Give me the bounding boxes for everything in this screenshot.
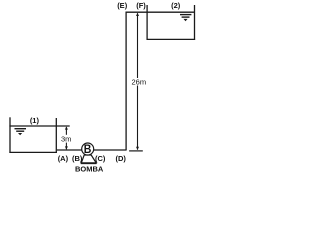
wire: riser pipe D-E bbox=[125, 12, 127, 150]
tank 2 left wall bbox=[146, 5, 148, 40]
arrowhead 3m up bbox=[65, 126, 68, 129]
svg-text:(E): (E) bbox=[117, 1, 128, 10]
svg-text:3m: 3m bbox=[61, 135, 71, 144]
dimension line 26m (vertical, broken for text) bbox=[137, 13, 139, 150]
dimension line 3m (vertical, broken for text) bbox=[65, 127, 67, 149]
tank 1 left wall bbox=[9, 117, 11, 153]
svg-text:BOMBA: BOMBA bbox=[75, 165, 104, 174]
arrowhead 26m up bbox=[136, 13, 139, 16]
svg-text:B: B bbox=[84, 142, 92, 156]
tank 1 bottom bbox=[9, 151, 57, 153]
pump base line bbox=[81, 163, 97, 165]
tank 1 water surface line (datum for 3m) bbox=[9, 125, 69, 127]
arrowhead 26m down bbox=[136, 147, 139, 150]
svg-text:(C): (C) bbox=[95, 154, 106, 163]
dimension extension line at pump level bbox=[129, 150, 143, 152]
tank 1 right wall bbox=[55, 118, 57, 153]
arrowhead 3m down bbox=[65, 146, 68, 149]
svg-text:(D): (D) bbox=[115, 154, 126, 163]
pump circle B (BOMBA) bbox=[82, 143, 94, 155]
svg-text:26m: 26m bbox=[132, 78, 147, 87]
svg-text:(A): (A) bbox=[58, 154, 69, 163]
pump base trapezoid bbox=[81, 155, 96, 163]
wire: suction/discharge pipe A-B-C-D bbox=[57, 149, 127, 151]
tank 2 right wall bbox=[194, 5, 196, 40]
wire: top pipe E-F / tank 2 water surface bbox=[126, 11, 195, 13]
water level symbol tank 1 bbox=[15, 128, 27, 135]
svg-text:(1): (1) bbox=[30, 116, 40, 125]
tank 2 bottom bbox=[147, 38, 196, 40]
svg-text:(2): (2) bbox=[171, 1, 181, 10]
svg-text:(F): (F) bbox=[136, 1, 146, 10]
svg-text:(B): (B) bbox=[72, 154, 83, 163]
water level symbol tank 2 bbox=[180, 14, 191, 21]
